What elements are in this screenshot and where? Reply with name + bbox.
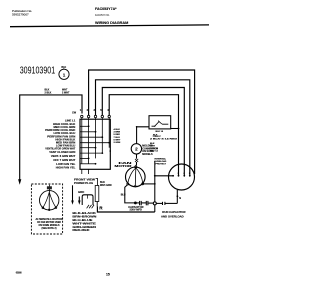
- header publication no: [12, 9, 32, 16]
- svg-text:RUN CAPACITOR: RUN CAPACITOR: [162, 210, 185, 214]
- wire thermostat output to fan chain: [137, 127, 149, 144]
- wire labels near compressor: [150, 131, 178, 165]
- svg-text:2: 2: [135, 147, 138, 152]
- svg-text:1: 1: [63, 72, 66, 77]
- fan motor label: [115, 161, 132, 168]
- svg-text:230V MFD: 230V MFD: [130, 208, 143, 212]
- wire R line: [97, 207, 154, 213]
- overload protector bars: [156, 202, 177, 205]
- wire compressor feed vertical: [154, 161, 156, 202]
- compressor terminal letters S C R: [178, 173, 191, 175]
- svg-text:AND OVERLOAD: AND OVERLOAD: [161, 214, 184, 218]
- svg-text:RED 14: RED 14: [150, 149, 158, 152]
- wiring color code legend: [72, 211, 97, 232]
- wire thermostat to loop4: [171, 128, 179, 130]
- header model number: [95, 7, 117, 17]
- svg-text:FRONT VIEW: FRONT VIEW: [74, 177, 96, 181]
- wire protector to fan motor: [135, 162, 138, 166]
- compressor M2: [169, 164, 195, 190]
- svg-text:(SEE NOTE 2): (SEE NOTE 2): [42, 228, 57, 230]
- thermal protector bowtie: [135, 159, 138, 162]
- capacitor C1: [135, 201, 154, 205]
- svg-text:MODELS: MODELS: [142, 153, 153, 156]
- header rule: [10, 25, 209, 27]
- svg-text:ALTERNATE LOCATION: ALTERNATE LOCATION: [36, 218, 63, 221]
- alternate fan motor text: [36, 218, 63, 230]
- wire loop 3: [102, 88, 184, 176]
- wire loop 2: [96, 80, 190, 176]
- svg-text:4 BLK: 4 BLK: [114, 128, 121, 131]
- connector plug 1: [59, 67, 69, 79]
- svg-text:62998: 62998: [16, 271, 22, 275]
- svg-text:15: 15: [106, 272, 110, 276]
- svg-text:BLK 16: BLK 16: [156, 131, 164, 133]
- svg-text:2 BLK·S 14 RED: 2 BLK·S 14 RED: [150, 137, 178, 140]
- wire fan left terminal to capacitor: [125, 185, 136, 203]
- svg-text:N: N: [179, 197, 181, 200]
- svg-text:GRD: GRD: [78, 190, 84, 194]
- wire connector2 to overload: [136, 154, 138, 159]
- switch S1 box: [80, 119, 110, 169]
- thermostat TH box: [149, 116, 171, 129]
- svg-text:5995279007: 5995279007: [12, 12, 29, 16]
- svg-text:FAC053Y7A1: FAC053Y7A1: [95, 14, 110, 17]
- svg-text:2 GRN: 2 GRN: [114, 142, 121, 144]
- svg-text:CW: CW: [72, 111, 77, 114]
- svg-text:WIRING DIAGRAM: WIRING DIAGRAM: [95, 21, 128, 25]
- wire compressor bottom to overload: [176, 190, 178, 204]
- alternate fan motor dashed box: [31, 184, 62, 234]
- svg-text:ON SOME MODELS: ON SOME MODELS: [39, 225, 60, 227]
- alternate fan motor M3: [40, 185, 59, 211]
- svg-text:RED-RED: RED-RED: [72, 228, 90, 232]
- switch S1 junction dots: [88, 125, 110, 164]
- svg-text:WHT-GRN: WHT-GRN: [100, 184, 112, 187]
- svg-text:POWER PLUG: POWER PLUG: [74, 181, 93, 185]
- compressor terminal dots: [172, 175, 191, 177]
- front view plug: [71, 177, 111, 208]
- svg-text:HIGH FAN YEL: HIGH FAN YEL: [56, 166, 76, 170]
- terminal T1: [153, 202, 156, 205]
- connector plug 2: [131, 144, 141, 154]
- wire loop 4: [109, 95, 178, 176]
- svg-text:OF FAN MOTOR USED: OF FAN MOTOR USED: [37, 221, 61, 224]
- svg-text:MOTOR: MOTOR: [115, 164, 132, 168]
- svg-text:2 WHT: 2 WHT: [62, 91, 70, 94]
- switch S1 row labels: [45, 119, 75, 170]
- wire L1 left line with arrow: [18, 88, 82, 184]
- wire fan right terminal down: [143, 183, 155, 185]
- svg-text:PROTECT: PROTECT: [156, 163, 167, 165]
- switch S1 internal wiring: [80, 118, 109, 164]
- switch S1 bottom stubs: [81, 169, 83, 174]
- wire color labels right of switch: [114, 128, 121, 144]
- svg-text:FAC053Y7A*: FAC053Y7A*: [95, 7, 117, 11]
- svg-text:BLU: BLU: [121, 194, 126, 196]
- switch S1 terminals: [72, 108, 110, 118]
- svg-text:2 BLK: 2 BLK: [45, 91, 52, 94]
- fan motor M1: [126, 166, 146, 187]
- svg-text:309103901: 309103901: [20, 65, 56, 76]
- wire loop 1: [89, 70, 195, 174]
